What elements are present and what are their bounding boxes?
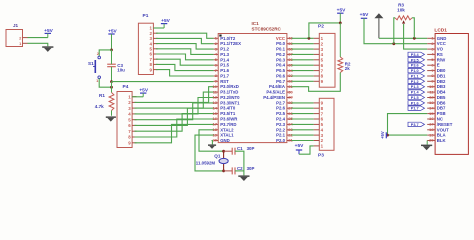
- wire BLK to ground: [426, 141, 428, 145]
- wire IC1 P2.4 to P3 pin6: [292, 118, 314, 120]
- svg-text:+5V: +5V: [44, 28, 53, 34]
- IC1 pin 37 (P0.2): [276, 52, 293, 57]
- wire P1 pin3 to IC1 P1.1: [156, 38, 214, 43]
- wire PSB/BLA to +5V: [388, 114, 428, 136]
- svg-text:P0.1: P0.1: [276, 47, 285, 52]
- IC1 pin 18 (XTAL2): [213, 127, 235, 132]
- wire XTAL2 to crystal top node: [199, 130, 224, 151]
- net label P1.4 (LCD pin 11): [408, 90, 425, 95]
- svg-text:XTAL2: XTAL2: [220, 127, 234, 132]
- IC1 pin 6 (P1.5): [214, 62, 230, 67]
- svg-text:Q1: Q1: [214, 154, 221, 159]
- IC1 pin 3 (P1.2): [214, 46, 230, 51]
- svg-text:P1.0: P1.0: [411, 69, 419, 73]
- svg-text:P2.2: P2.2: [276, 127, 285, 132]
- svg-text:P1.4: P1.4: [220, 57, 229, 62]
- svg-text:P3.3/INT1: P3.3/INT1: [220, 100, 240, 105]
- svg-text:P1: P1: [143, 13, 149, 19]
- IC1 pin 15 (P3.5/T1): [213, 111, 236, 116]
- wire J1 pin1 to ground: [28, 43, 48, 46]
- svg-text:STC89C52RC: STC89C52RC: [252, 26, 282, 31]
- wire P1 pin8 to IC1 P1.6: [156, 64, 214, 70]
- svg-text:DB1: DB1: [437, 74, 446, 79]
- IC1 pin 4 (P1.3): [214, 52, 230, 57]
- wire S1 bottom to rail: [99, 79, 111, 88]
- svg-text:VO: VO: [437, 47, 444, 52]
- net label P3.5 (LCD pin 5): [408, 58, 425, 63]
- LCD1 pin 20 (BLK): [427, 138, 446, 143]
- svg-text:18: 18: [429, 127, 434, 132]
- wire IC1 VCC to P2 pin1: [292, 37, 314, 39]
- node R2 top junction: [339, 22, 342, 25]
- svg-text:12: 12: [213, 95, 218, 100]
- svg-text:P1.6: P1.6: [220, 68, 229, 73]
- svg-text:DB3: DB3: [437, 84, 446, 89]
- LCD1 pin 7 (DB0): [427, 68, 446, 73]
- power ground arrow (LCD GND net): [374, 13, 383, 38]
- svg-text:VCC: VCC: [276, 36, 285, 41]
- connector P4: [117, 84, 137, 148]
- IC1 pin 11 (P3.1/TxD): [213, 89, 239, 94]
- wire J1 pin2 to +5V: [28, 37, 48, 39]
- power +5V (reset rail): [108, 29, 117, 50]
- wire IC1 P2.1 to P3 pin3: [292, 134, 314, 136]
- svg-text:P1.5: P1.5: [220, 63, 229, 68]
- svg-text:R/W: R/W: [437, 57, 446, 62]
- LCD1 pin 1 (GND): [427, 36, 446, 41]
- net label P1.2 (LCD pin 9): [408, 79, 425, 84]
- wire IC1 P2.2 to P3 pin4: [292, 129, 314, 131]
- svg-text:/RESET: /RESET: [437, 122, 453, 127]
- svg-text:P1.0/T2: P1.0/T2: [220, 36, 236, 41]
- wire P1 pin6 to IC1 P1.4: [156, 54, 214, 60]
- power +5V (LCD VCC): [360, 12, 369, 20]
- svg-text:P3.4: P3.4: [411, 53, 420, 57]
- net label P1.5 (LCD pin 12): [408, 95, 425, 100]
- IC1 pin 32 (P0.7): [276, 79, 293, 84]
- svg-text:+5V: +5V: [108, 29, 117, 35]
- node crystal bottom junction: [222, 170, 225, 173]
- svg-text:16: 16: [213, 116, 218, 121]
- svg-text:14: 14: [213, 105, 218, 110]
- svg-text:19: 19: [429, 132, 434, 137]
- svg-text:P0.5: P0.5: [276, 68, 285, 73]
- switch S1: [88, 51, 100, 83]
- svg-text:P3.1/TxD: P3.1/TxD: [220, 90, 238, 95]
- svg-text:P0.4: P0.4: [276, 63, 285, 68]
- svg-text:E: E: [437, 63, 440, 68]
- wire R3 wiper to LCD VO: [404, 24, 428, 49]
- svg-text:P1.3: P1.3: [411, 85, 419, 89]
- wire IC1 P0.4 to P2 pin6: [292, 64, 314, 66]
- node crystal top junction: [222, 150, 225, 153]
- svg-text:P4.6/EA: P4.6/EA: [269, 84, 285, 89]
- IC1 pin 12 (P3.2/INT0): [213, 95, 241, 100]
- svg-text:+5V: +5V: [161, 18, 170, 24]
- svg-text:DB7: DB7: [437, 106, 446, 111]
- svg-text:13: 13: [213, 100, 218, 105]
- IC1 pin 29 (P4.4/PSEN): [263, 95, 293, 100]
- svg-text:P0.3: P0.3: [276, 57, 285, 62]
- svg-text:20: 20: [213, 138, 218, 143]
- node reset-top junction: [110, 49, 113, 52]
- ground (J1): [42, 46, 53, 52]
- svg-text:LCD1: LCD1: [434, 28, 447, 34]
- svg-text:+5V: +5V: [295, 143, 304, 149]
- svg-text:P1.1: P1.1: [411, 75, 419, 79]
- svg-text:30: 30: [288, 89, 293, 94]
- svg-text:P2.7: P2.7: [276, 100, 285, 105]
- wire IC1 P2.6 to P3 pin8: [292, 107, 314, 109]
- svg-text:P2.3: P2.3: [276, 122, 285, 127]
- svg-text:P2.6: P2.6: [276, 106, 285, 111]
- svg-text:P1.3: P1.3: [220, 52, 229, 57]
- svg-text:30P: 30P: [247, 146, 255, 151]
- svg-text:10k: 10k: [397, 8, 405, 13]
- svg-text:16: 16: [429, 116, 434, 121]
- svg-text:10: 10: [213, 84, 218, 89]
- IC1 pin 14 (P3.4/T0): [213, 105, 236, 110]
- net label P1.6 (LCD pin 13): [408, 101, 425, 106]
- wire P1 pin2 to IC1 P1.0: [156, 33, 214, 38]
- ground (R1): [106, 116, 116, 121]
- svg-text:P4.4/PSEN: P4.4/PSEN: [263, 95, 285, 100]
- node S1-bottom junction: [110, 82, 113, 93]
- svg-text:S1: S1: [88, 61, 94, 66]
- LCD1 pin 6 (E): [427, 62, 440, 67]
- svg-text:P1.1/T2EX: P1.1/T2EX: [220, 41, 241, 46]
- wire P1 pin7 to IC1 P1.5: [156, 59, 214, 65]
- LCD1 pin 2 (VCC): [427, 41, 446, 46]
- resistor R1: [95, 93, 114, 116]
- svg-text:J1: J1: [13, 23, 19, 28]
- svg-text:NC: NC: [437, 117, 443, 122]
- IC1 designator labels: [252, 21, 282, 31]
- net label P1.1 (LCD pin 8): [408, 74, 425, 79]
- svg-text:BLA: BLA: [437, 133, 446, 138]
- wire IC1 P0.7 to P2 pin9: [292, 80, 314, 82]
- svg-text:15: 15: [429, 111, 434, 116]
- svg-text:14: 14: [429, 105, 434, 110]
- wire P4 pin7 to IC1 P3.5: [135, 114, 214, 132]
- svg-text:P3.5: P3.5: [411, 58, 419, 62]
- ground (crystal caps): [238, 175, 249, 181]
- resistor R2: [338, 23, 351, 73]
- svg-text:PSB: PSB: [437, 111, 446, 116]
- potentiometer R3: [394, 2, 415, 43]
- svg-text:P1.2: P1.2: [411, 80, 419, 84]
- LCD1 pin 19 (BLA): [427, 132, 445, 137]
- wire P1 pin5 to IC1 P1.3: [156, 49, 214, 55]
- capacitor C2: [232, 166, 254, 175]
- svg-text:17: 17: [213, 122, 218, 127]
- svg-text:P3: P3: [318, 153, 324, 159]
- svg-text:10: 10: [429, 84, 434, 89]
- wire R2 to EA pin: [292, 73, 341, 92]
- svg-text:P1.7: P1.7: [220, 74, 229, 79]
- svg-text:P0.2: P0.2: [276, 52, 285, 57]
- svg-text:P0.7: P0.7: [276, 79, 285, 84]
- wire IC1 GND pin down: [211, 141, 214, 145]
- wire P1 pin1 to +5V: [153, 27, 164, 29]
- svg-text:17: 17: [429, 122, 434, 127]
- ground (LCD BLK): [421, 145, 432, 151]
- svg-text:P3.0/RxD: P3.0/RxD: [220, 84, 239, 89]
- svg-text:GND: GND: [437, 36, 447, 41]
- IC1 pin 5 (P1.4): [214, 57, 230, 62]
- svg-text:BLK: BLK: [437, 138, 447, 143]
- power +5V (LCD backlight, rotated): [380, 131, 387, 139]
- svg-text:P3.7: P3.7: [411, 123, 419, 127]
- power +5V (J1): [44, 28, 53, 37]
- svg-text:29: 29: [288, 95, 293, 100]
- power +5V (P4 pin1): [139, 88, 148, 97]
- svg-text:20: 20: [429, 138, 434, 143]
- IC1 pin 7 (P1.6): [214, 68, 230, 73]
- IC1 pin 24 (P2.3): [276, 122, 293, 127]
- node R3 left junction: [392, 42, 395, 45]
- wire P4 pin1 to +5V: [132, 96, 143, 98]
- svg-text:P3.2/INT0: P3.2/INT0: [220, 95, 240, 100]
- svg-text:+5V: +5V: [380, 131, 385, 139]
- power +5V (P2/VCC): [337, 7, 346, 23]
- power +5V (P3 pin1): [295, 143, 304, 154]
- IC1 pin 31 (P4.6/EA): [269, 84, 294, 89]
- LCD1 pin 14 (DB7): [427, 105, 446, 110]
- wire IC1 P0.1 to P2 pin3: [292, 48, 314, 50]
- IC1 pin 33 (P0.6): [276, 73, 293, 78]
- wire P1 pin9 to IC1 P1.7: [156, 70, 214, 76]
- wire IC1 P0.0 to P2 pin2: [292, 43, 314, 45]
- svg-text:P3.6: P3.6: [411, 64, 419, 68]
- IC1 pin 25 (P2.4): [276, 116, 293, 121]
- net label P3.4 (LCD pin 4): [408, 52, 425, 57]
- wire RST net: [112, 81, 214, 83]
- IC1 pin 2 (P1.1/T2EX): [214, 41, 242, 46]
- svg-text:DB2: DB2: [437, 79, 446, 84]
- power +5V (P1 pin1): [161, 18, 171, 28]
- svg-text:+5V: +5V: [360, 12, 369, 18]
- wire node to S1 top: [99, 50, 111, 56]
- LCD1 pin 11 (DB4): [427, 89, 446, 94]
- IC1 STC89C52RC body: [218, 34, 287, 143]
- IC1 pin 39 (P0.0): [276, 41, 293, 46]
- svg-text:DB5: DB5: [437, 95, 446, 100]
- svg-text:DB0: DB0: [437, 68, 446, 73]
- svg-text:11.0592M: 11.0592M: [196, 161, 216, 166]
- wire crystal bottom node to C2: [224, 170, 233, 172]
- wire P4 pin5 to IC1 P3.3: [135, 103, 214, 120]
- IC1 pin 10 (P3.0/RxD): [213, 84, 239, 89]
- svg-text:13: 13: [429, 100, 434, 105]
- IC1 pin 17 (P3.7/RD): [213, 122, 237, 127]
- IC1 pin 35 (P0.4): [276, 62, 293, 67]
- IC1 pin 26 (P2.5): [276, 111, 293, 116]
- wire P4 pin9 to IC1 P3.7: [135, 124, 214, 142]
- svg-text:P0.6: P0.6: [276, 74, 285, 79]
- node PSB/BLA junction: [386, 134, 389, 137]
- LCD1 pin 10 (DB3): [427, 84, 446, 89]
- svg-text:10u: 10u: [117, 68, 125, 73]
- svg-text:P4.5/ALE: P4.5/ALE: [266, 90, 285, 95]
- wire IC1 P0.6 to P2 pin8: [292, 75, 314, 77]
- node R3 right junction: [413, 37, 416, 40]
- ground (IC1 GND): [208, 144, 216, 149]
- net label P3.7 (LCD pin 17): [408, 122, 425, 127]
- capacitor C1: [232, 146, 254, 155]
- svg-text:C1: C1: [237, 146, 243, 151]
- LCD1 pin 12 (DB5): [427, 95, 446, 100]
- IC1 pin 34 (P0.5): [276, 68, 293, 73]
- IC1 pin 20 (GND): [213, 138, 230, 143]
- wire P4 pin8 to IC1 P3.6: [135, 119, 214, 137]
- wire IC1 P0.5 to P2 pin7: [292, 70, 314, 72]
- IC1 pin 30 (P4.5/ALE): [266, 89, 293, 94]
- LCD1 pin 4 (RS): [427, 52, 443, 57]
- net label P1.0 (LCD pin 7): [408, 68, 425, 73]
- IC1 pin 36 (P0.3): [276, 57, 293, 62]
- svg-text:P4: P4: [123, 84, 129, 90]
- wire IC1 P2.0 to P3 pin2: [292, 140, 314, 142]
- LCD1 pin 8 (DB1): [427, 73, 446, 78]
- wire P1 pin4 to IC1 P1.2: [156, 44, 214, 50]
- IC1 pin 21 (P2.0): [276, 138, 293, 143]
- LCD1 pin 13 (DB6): [427, 100, 446, 105]
- svg-text:DB6: DB6: [437, 100, 446, 105]
- wire +5V to VCC rail: [309, 23, 340, 38]
- IC1 pin 9 (RST): [214, 79, 230, 84]
- LCD1 pin 15 (PSB): [427, 111, 445, 116]
- wire XTAL1 to crystal bottom node: [195, 135, 224, 171]
- svg-text:2k: 2k: [345, 66, 350, 71]
- IC1 pin 13 (P3.3/INT1): [213, 100, 241, 105]
- connector P3: [314, 98, 334, 158]
- svg-text:P3.6/WR: P3.6/WR: [220, 117, 238, 122]
- node RST junction: [110, 80, 113, 83]
- IC1 pin 40 (VCC): [276, 36, 294, 41]
- wire P4 pin6 to IC1 P3.4: [135, 108, 214, 125]
- svg-text:4.7k: 4.7k: [95, 104, 104, 109]
- node VCC junction: [308, 37, 311, 40]
- net label P1.3 (LCD pin 10): [408, 85, 425, 90]
- svg-text:P3.7/RD: P3.7/RD: [220, 122, 236, 127]
- net label P1.7 (LCD pin 14): [408, 106, 425, 111]
- LCD1 pin 17 (/RESET): [427, 122, 452, 127]
- svg-text:P3.4/T0: P3.4/T0: [220, 106, 236, 111]
- capacitor C3: [107, 50, 125, 82]
- wire IC1 P0.3 to P2 pin5: [292, 59, 314, 61]
- svg-text:15: 15: [213, 111, 218, 116]
- net label P3.6 (LCD pin 6): [408, 63, 425, 68]
- LCD1 pin 5 (R/W): [427, 57, 446, 62]
- svg-text:+5V: +5V: [139, 88, 148, 94]
- IC1 pin 22 (P2.1): [276, 132, 293, 137]
- wire crystal top node to C1: [224, 150, 233, 152]
- svg-text:P2.5: P2.5: [276, 111, 285, 116]
- svg-text:VOUT: VOUT: [437, 127, 449, 132]
- LCD1 body: [435, 34, 468, 155]
- connector P2: [314, 23, 335, 87]
- svg-text:P3.5/T1: P3.5/T1: [220, 111, 236, 116]
- svg-text:VCC: VCC: [437, 41, 446, 46]
- svg-text:RST: RST: [220, 79, 229, 84]
- IC1 pin 23 (P2.2): [276, 127, 293, 132]
- wire +5V to P3 pin1: [299, 146, 314, 154]
- svg-text:P2.1: P2.1: [276, 133, 285, 138]
- svg-text:R1: R1: [99, 93, 105, 98]
- wire LCD GND net: [379, 37, 427, 39]
- svg-text:P2.0: P2.0: [276, 138, 285, 143]
- wire IC1 P0.2 to P2 pin4: [292, 53, 314, 55]
- wire P4 pin2 to IC1 P3.0: [135, 87, 214, 103]
- wire IC1 P2.3 to P3 pin5: [292, 123, 314, 125]
- IC1 pin 16 (P3.6/WR): [213, 116, 239, 121]
- svg-text:P1.7: P1.7: [411, 107, 419, 111]
- wire C2 to ground rail: [235, 170, 244, 172]
- IC1 pin 38 (P0.1): [276, 46, 293, 51]
- svg-text:+5V: +5V: [337, 7, 346, 13]
- svg-text:12: 12: [429, 95, 434, 100]
- svg-text:RS: RS: [437, 52, 443, 57]
- wire LCD VCC net: [364, 18, 427, 43]
- IC1 pin 28 (P2.7): [276, 100, 293, 105]
- svg-text:GND: GND: [220, 138, 230, 143]
- LCD1 pin 3 (VO): [427, 46, 443, 51]
- connector P1: [138, 13, 157, 75]
- svg-text:P1.2: P1.2: [220, 47, 229, 52]
- LCD1 pin 16 (NC): [427, 116, 443, 121]
- svg-text:P1.6: P1.6: [411, 101, 419, 105]
- svg-text:XTAL1: XTAL1: [220, 133, 234, 138]
- LCD1 pin 18 (VOUT): [427, 127, 449, 132]
- crystal Q1: [196, 151, 228, 171]
- svg-text:C2: C2: [237, 166, 243, 171]
- wire IC1 P2.7 to P3 pin9: [292, 102, 314, 104]
- IC1 pin 1 (P1.0/T2): [214, 36, 236, 41]
- svg-text:30P: 30P: [247, 166, 255, 171]
- wire C1 to ground rail: [235, 151, 244, 175]
- svg-text:DB4: DB4: [437, 90, 446, 95]
- svg-text:P2.4: P2.4: [276, 117, 285, 122]
- IC1 pin 8 (P1.7): [214, 73, 230, 78]
- wire P4 pin3 to IC1 P3.1: [135, 92, 214, 108]
- LCD1 designator: [434, 28, 447, 34]
- connector J1: [6, 23, 28, 47]
- IC1 pin 27 (P2.6): [276, 105, 293, 110]
- svg-text:P0.0: P0.0: [276, 41, 285, 46]
- svg-text:P1.5: P1.5: [411, 96, 419, 100]
- svg-text:P1.4: P1.4: [411, 91, 420, 95]
- IC1 pin 19 (XTAL1): [213, 132, 235, 137]
- LCD1 pin 9 (DB2): [427, 79, 446, 84]
- wire IC1 P2.5 to P3 pin7: [292, 113, 314, 115]
- wire P4 pin4 to IC1 P3.2: [135, 98, 214, 114]
- svg-text:P2: P2: [318, 23, 324, 29]
